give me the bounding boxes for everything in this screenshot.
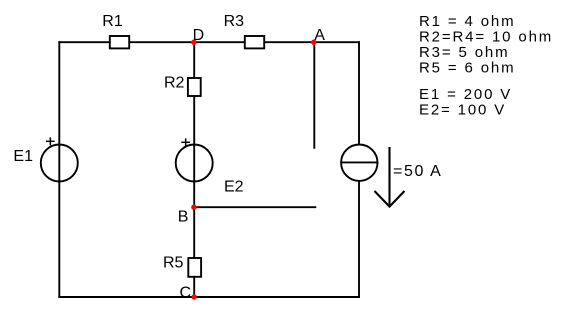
node A [311,40,316,45]
resistor R2 [188,78,201,96]
svg-text:I=50 A: I=50 A [387,163,442,180]
node D [191,40,196,45]
svg-text:E2: E2 [224,179,244,196]
svg-text:B: B [178,209,189,226]
svg-text:R2=R4= 10 ohm: R2=R4= 10 ohm [419,29,553,46]
plus sign of E2 [181,138,190,146]
voltage source E1 [41,145,78,182]
current source I [341,145,377,181]
svg-text:R3: R3 [224,13,245,30]
node C [191,294,196,299]
resistor R3 [245,36,264,48]
wire right [358,42,360,297]
svg-text:R5 = 6 ohm: R5 = 6 ohm [419,60,515,77]
node B [191,205,196,210]
svg-text:A: A [314,27,325,44]
wire stub below node A [313,42,315,148]
voltage source E2 [176,145,213,182]
svg-text:C: C [180,285,192,302]
wire left [58,42,60,297]
svg-text:E2= 100 V: E2= 100 V [419,102,506,119]
wire middle branch D to C [193,42,195,297]
wire stub right of node B [194,206,315,208]
resistor R5 [188,258,201,277]
svg-text:R1: R1 [102,13,123,30]
svg-text:R2: R2 [164,75,185,92]
wire top [59,41,359,43]
svg-text:E1: E1 [13,148,33,165]
plus sign of E1 [46,137,55,145]
svg-text:D: D [193,27,205,44]
current direction arrow [375,147,405,207]
resistor R1 [110,36,129,48]
wire bottom [59,296,359,298]
svg-text:R5: R5 [163,255,184,272]
value annotations [419,13,553,118]
